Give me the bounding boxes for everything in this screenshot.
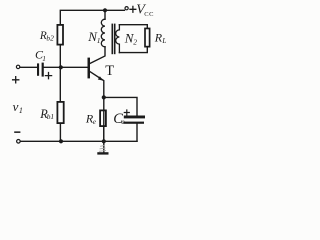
wire Rb2 to Rb1 [59, 46, 61, 102]
node Vcc rail / N1 junction [103, 8, 107, 12]
svg-text:b1: b1 [47, 112, 54, 121]
svg-text:CC: CC [144, 11, 154, 18]
svg-text:1: 1 [97, 36, 101, 45]
wire C1 to base [44, 66, 88, 68]
label Rb1 [39, 107, 54, 121]
label RL [154, 30, 167, 45]
svg-text:e: e [93, 118, 97, 126]
node ground junction [102, 139, 106, 143]
wire rail drop to N1 [104, 10, 106, 19]
svg-text:L: L [161, 37, 166, 45]
resistor Rb1 [57, 102, 63, 123]
label Ce polarity + [124, 110, 129, 115]
label input minus [14, 131, 20, 133]
emitter arrow [98, 76, 103, 80]
wire secondary loop top [119, 25, 147, 28]
wire emitter to Ce [104, 97, 137, 115]
inductor N2 secondary winding [116, 25, 120, 53]
capacitor Ce bottom plate [123, 122, 144, 124]
svg-text:1: 1 [19, 106, 23, 115]
wire collector [90, 47, 105, 64]
wire Rb1 bottom stem [59, 124, 61, 141]
svg-text:T: T [105, 63, 114, 79]
node emitter branch [102, 95, 106, 99]
resistor Rb2 [57, 25, 63, 45]
wire secondary loop bottom [119, 48, 147, 53]
label +Vcc [130, 6, 136, 12]
wire Re bottom stem [103, 127, 105, 141]
label input + [13, 77, 19, 83]
label v1 [13, 99, 23, 115]
wire Vcc top rail [60, 10, 124, 24]
label Rb2 [39, 30, 54, 43]
svg-text:v: v [13, 99, 19, 114]
label Ce [113, 111, 125, 127]
node Rb1 bottom [59, 139, 63, 143]
wire emitter [90, 72, 104, 142]
wire bottom rail [20, 140, 137, 142]
transistor T base bar [88, 58, 91, 79]
svg-text:1: 1 [42, 54, 46, 63]
wire input to C1 [20, 66, 37, 68]
capacitor C1 left plate [37, 63, 39, 75]
inductor N1 primary winding [101, 19, 105, 47]
label C1 polarity + [45, 73, 51, 79]
capacitor Ce top plate [124, 116, 145, 119]
label N2 [124, 30, 137, 46]
ground [97, 141, 108, 154]
label C1 [35, 47, 46, 63]
node base junction [59, 65, 63, 69]
svg-text:b2: b2 [46, 34, 54, 43]
svg-text:2: 2 [133, 38, 137, 47]
transformer core bars [112, 24, 114, 55]
resistor Re [100, 110, 106, 126]
capacitor C1 right plate [42, 63, 44, 77]
label Re [85, 111, 97, 125]
terminal +Vcc [125, 7, 128, 10]
label N1 [87, 29, 100, 45]
resistor RL [145, 28, 150, 46]
wire Ce bottom [136, 124, 138, 142]
terminal input bottom [17, 140, 21, 144]
terminal input top [16, 65, 19, 68]
svg-text:R: R [154, 30, 163, 44]
